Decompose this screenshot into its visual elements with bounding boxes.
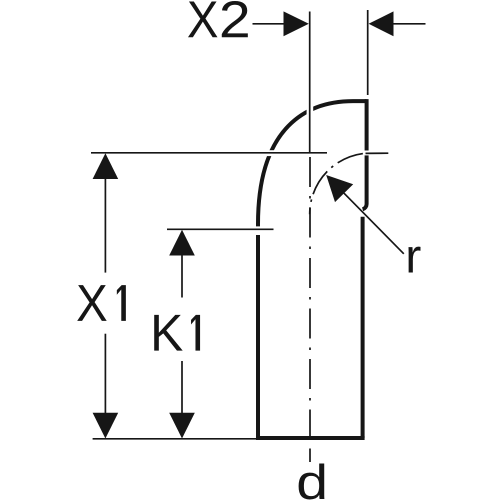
X2 right arrow (points left) bbox=[369, 11, 394, 36]
label K1 bbox=[154, 315, 200, 351]
X2 right extension line bbox=[367, 10, 369, 95]
vertical pipe centreline (dash-dot) bbox=[309, 155, 311, 444]
white break where X2 extension line crosses outer arc bbox=[307, 104, 314, 118]
K1 top extension line bbox=[167, 228, 274, 230]
bend radius centreline arc (dash-dot) bbox=[310, 153, 364, 214]
r leader line bbox=[344, 193, 404, 254]
X2 left extension line (pipe axis above bend) bbox=[309, 12, 311, 153]
label X1 bbox=[77, 285, 126, 321]
X2 dimension line left tail bbox=[253, 23, 285, 25]
X1 dimension line upper shaft bbox=[104, 178, 106, 273]
pipe bend outline (bold) bbox=[256, 99, 367, 438]
pipe bottom line bbox=[256, 436, 365, 440]
bottom extension line bbox=[93, 438, 256, 440]
X2 dimension line right tail bbox=[393, 23, 426, 25]
white break where centreline crosses outlet end face bbox=[363, 151, 370, 156]
X1 top arrow (points up) bbox=[93, 153, 119, 179]
pipe left wall lower segment bbox=[256, 235, 260, 438]
label X2 bbox=[188, 1, 248, 37]
arrowheads bbox=[93, 11, 394, 438]
K1 bottom arrow (points down) bbox=[169, 413, 195, 439]
pipe right wall bbox=[361, 217, 365, 438]
X2 left arrow (points right) bbox=[284, 11, 309, 36]
thin lines bbox=[91, 10, 426, 462]
K1 dimension line upper shaft bbox=[181, 255, 183, 298]
outlet end face bbox=[363, 99, 367, 209]
outlet centreline dash through end face bbox=[366, 152, 389, 154]
K1 dimension line lower shaft bbox=[181, 361, 183, 414]
white break where X1 extension line crosses outer arc bbox=[263, 150, 278, 156]
pipe centreline final dash below outlet bbox=[309, 449, 311, 463]
r arrow (points up-left at 45deg) bbox=[326, 175, 353, 202]
X1 top extension line / outlet centreline solid part bbox=[91, 152, 327, 154]
K1 top arrow (points up) bbox=[169, 230, 195, 256]
pipe left wall upper segment + outer bend arc + top line bbox=[258, 101, 367, 226]
label d bbox=[299, 463, 325, 499]
X1 bottom arrow (points down) bbox=[93, 413, 119, 439]
X1 dimension line lower shaft bbox=[104, 334, 106, 414]
label r bbox=[408, 247, 420, 273]
